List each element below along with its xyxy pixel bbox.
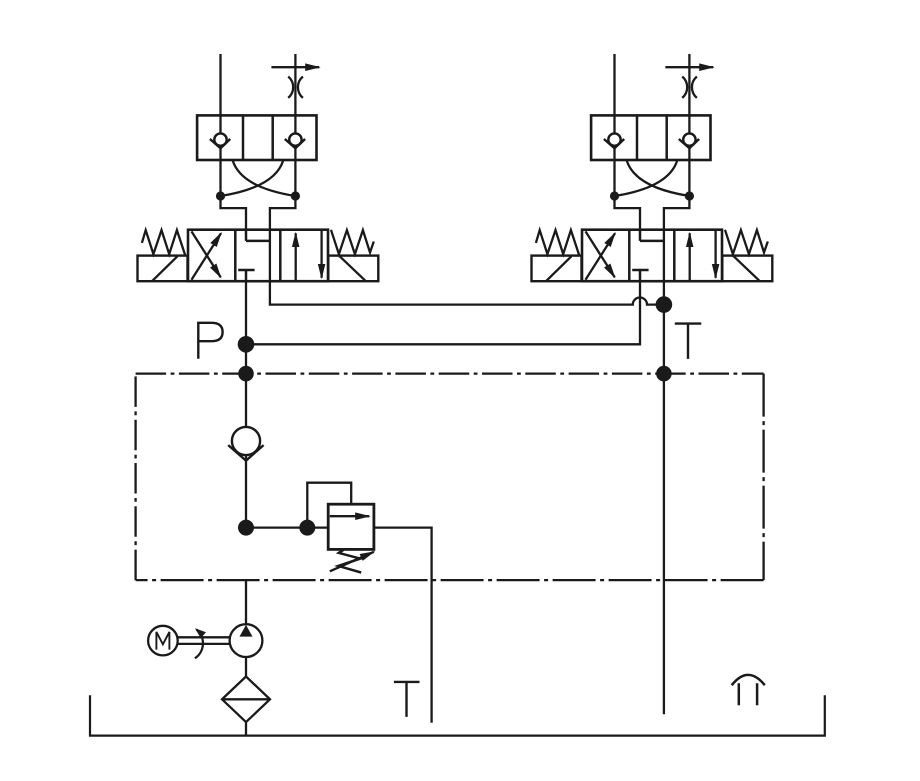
solenoid b diagonal [340, 256, 366, 280]
check valve CV5 poppet [232, 427, 260, 455]
spring left 2 [536, 230, 579, 255]
relief valve pilot line [307, 483, 351, 528]
wire P header to right valve [246, 281, 640, 344]
node P dot [238, 336, 255, 353]
wire T from left valve with bridge hop [270, 281, 664, 304]
label M [156, 632, 169, 650]
DV1 parallel arrow up [295, 233, 297, 281]
pump P1 circle [230, 624, 263, 657]
wire T return line to tank [663, 281, 665, 714]
DV2 crossed arrow 2 [586, 231, 615, 277]
node dot pump line [238, 520, 254, 536]
solenoid a box [138, 256, 188, 282]
check valve CV3 poppet [608, 133, 620, 145]
filter mesh line [222, 698, 270, 700]
check valve CV4 seat [679, 139, 699, 148]
solenoid d box [722, 256, 772, 282]
DV1 crossed arrow 2 [192, 231, 221, 277]
pilot check valve block body [197, 115, 316, 160]
label T drain [394, 682, 420, 717]
filter F1 diamond [222, 677, 270, 723]
relief valve flow arrow [330, 515, 369, 517]
DV2 center A port blocked [640, 230, 665, 241]
solenoid a diagonal [152, 256, 177, 281]
DV2 parallel arrow up [689, 233, 691, 281]
wire check valve to pump junction [245, 456, 247, 528]
flow arrow above throttle [271, 66, 319, 68]
node dot relief branch [299, 520, 315, 536]
relief valve spring [338, 550, 361, 573]
pilot line crossing left-to-right 2 [627, 160, 690, 196]
breather ticks [739, 683, 757, 705]
pilot check valve block 2 body [591, 115, 710, 160]
wire manifold to pump [245, 580, 247, 624]
wire yoke B to valve port [270, 196, 296, 230]
coupling shaft double line [178, 637, 230, 644]
DV2 parallel arrow down [714, 230, 716, 278]
spring left [142, 230, 185, 255]
spring right 2 [725, 230, 768, 254]
DV1 center A port blocked [246, 230, 271, 241]
throttle (restrictor) on B line [288, 77, 303, 98]
wire filter to tank [245, 722, 247, 736]
block cell dividers [243, 115, 273, 160]
solenoid c diagonal [546, 256, 571, 281]
wire yoke A to valve port [221, 196, 247, 230]
node dot T on manifold edge [656, 366, 672, 382]
pilot line crossing right-to-left 2 [615, 160, 678, 196]
wire yoke B2 to valve port [664, 196, 690, 230]
solenoid b box [328, 256, 378, 282]
directional valve DV2 body [582, 230, 722, 282]
junction dot A2 [610, 191, 619, 200]
wire P riser left valve to check valve [245, 281, 247, 427]
flow arrow above throttle 2 [665, 66, 713, 68]
DV2 center B-T through line [663, 230, 665, 282]
block 2 cell dividers [637, 115, 667, 160]
valve assembly 2 (right) [532, 54, 773, 281]
node dot P on manifold edge [238, 366, 254, 382]
pilot line crossing right-to-left [221, 160, 284, 196]
check valve CV4 poppet [683, 133, 695, 145]
wire B2 cylinder port line [688, 54, 690, 196]
check valve CV1 seat [210, 139, 230, 148]
DV1 center P port blocked [238, 270, 254, 281]
tank outline [90, 695, 825, 735]
motor M1 circle [148, 626, 178, 656]
spring right [331, 230, 374, 254]
throttle (restrictor) on B2 line [682, 77, 697, 98]
DV1 parallel arrow down [320, 230, 322, 278]
rotation arrow [195, 630, 203, 659]
DV2 position dividers [629, 230, 674, 282]
DV1 center B-T through line [269, 230, 271, 282]
wire relief valve drain to tank [374, 528, 432, 723]
pilot line crossing left-to-right [233, 160, 296, 196]
wire yoke A2 to valve port [615, 196, 641, 230]
check valve CV1 poppet [214, 133, 226, 145]
DV1 position dividers [235, 230, 280, 282]
wire A1 cylinder port line [219, 54, 221, 196]
label T [675, 324, 702, 359]
solenoid c box [532, 256, 582, 282]
check valve CV2 seat [285, 139, 305, 148]
check valve CV3 seat [604, 139, 624, 148]
label P [198, 323, 222, 359]
wire A2 cylinder port line [613, 54, 615, 196]
junction dot B1 [291, 191, 300, 200]
breather cap arc [732, 675, 765, 685]
check valve CV5 seat [228, 445, 263, 461]
wire pump suction [245, 657, 247, 677]
DV2 crossed arrow 1 [586, 233, 616, 280]
wire to relief valve [246, 526, 328, 528]
solenoid d diagonal [734, 256, 760, 280]
directional valve DV1 body [188, 230, 328, 282]
pump outlet triangle [240, 625, 253, 637]
check valve CV2 poppet [289, 133, 301, 145]
DV2 center P port blocked [632, 270, 648, 281]
DV1 crossed arrow 1 [192, 233, 222, 280]
manifold enclosure (dash-dot) [136, 372, 764, 374]
valve assembly 1 (left) [138, 54, 379, 281]
wire B1 cylinder port line [294, 54, 296, 196]
relief valve RV1 body [328, 504, 374, 549]
node T dot [656, 296, 673, 313]
relief valve adjust arrow [330, 552, 374, 572]
junction dot A1 [216, 191, 225, 200]
junction dot B2 [685, 191, 694, 200]
